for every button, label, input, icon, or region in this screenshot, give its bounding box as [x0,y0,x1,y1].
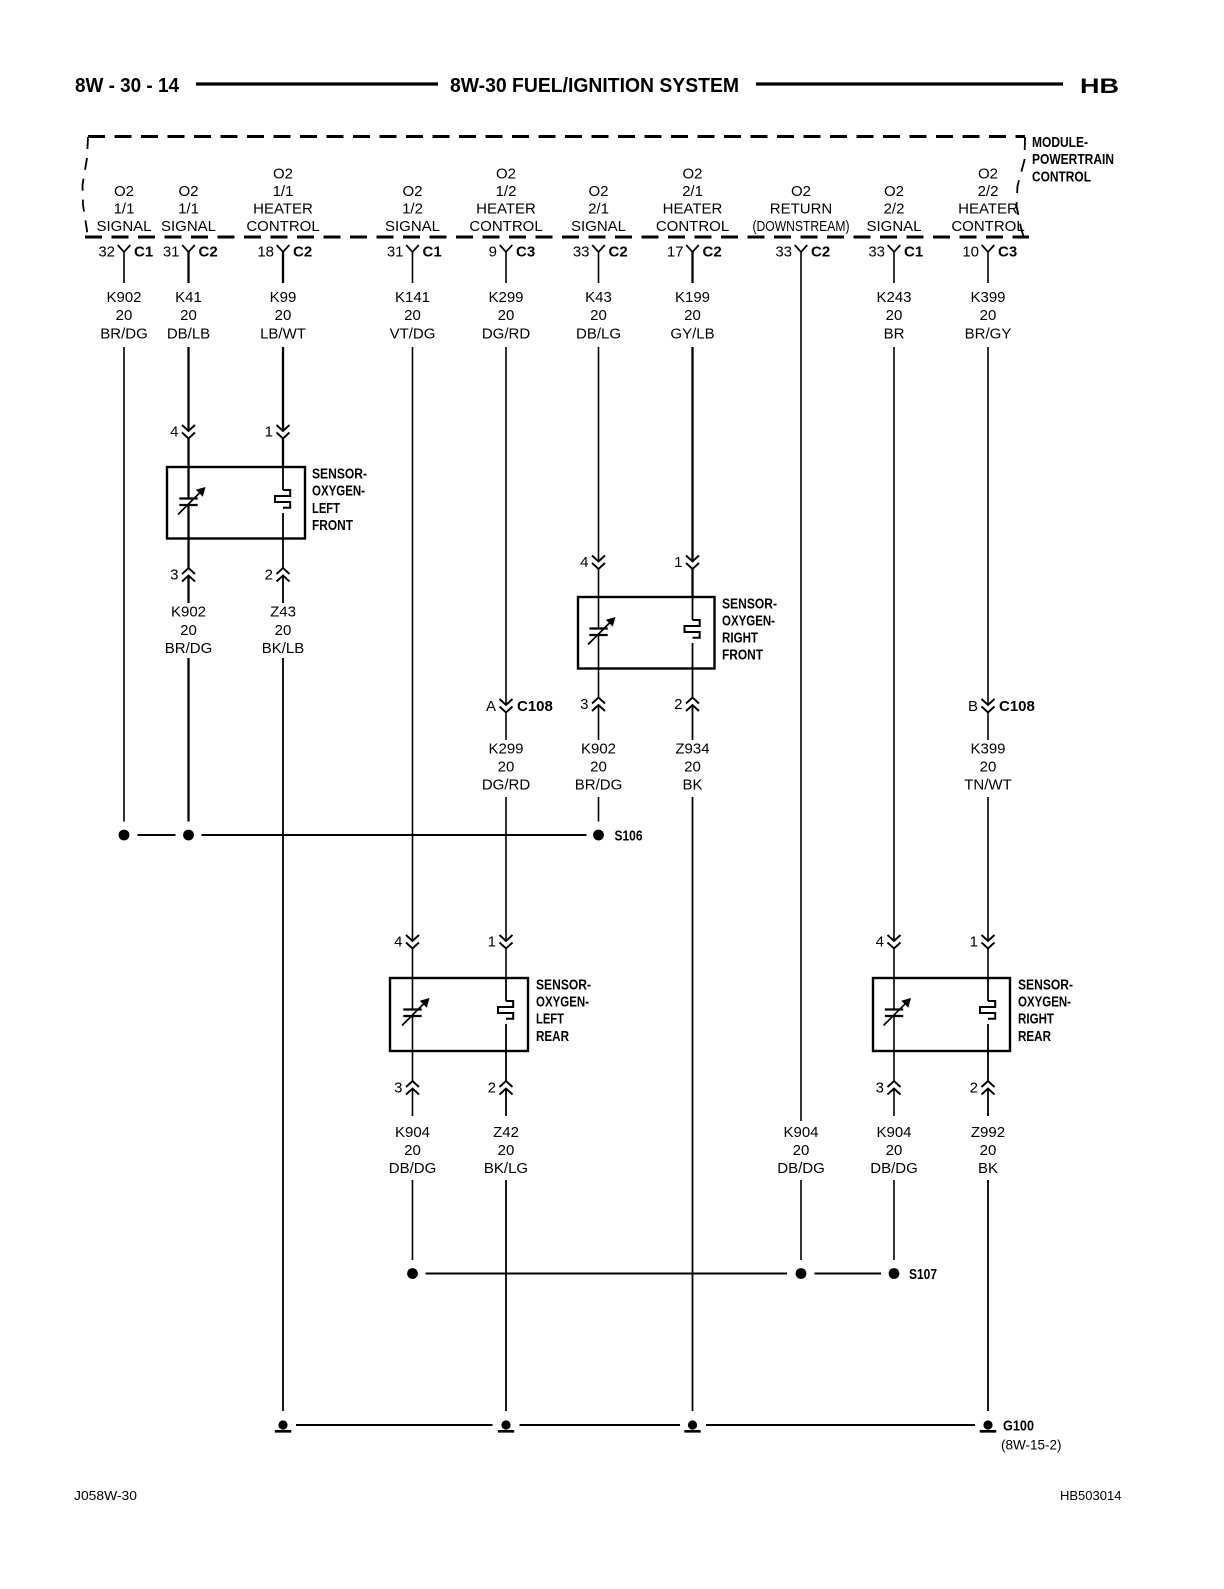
svg-text:10: 10 [962,244,979,261]
svg-text:8W - 30 - 14: 8W - 30 - 14 [75,75,180,97]
wire out of box to pin 3 (col 6) [598,669,600,698]
svg-text:VT/DG: VT/DG [390,326,436,343]
svg-text:C2: C2 [199,244,218,261]
inline connector pin 1 (left rear sensor) [488,934,513,951]
wire K299 from PCM down to C108 pin A (col 5) [505,347,507,705]
svg-text:20: 20 [404,1142,421,1159]
component label SENSOR--OXYGEN--LEFT-FRONT [312,466,367,534]
ground symbol at G100 for wire Z934 [684,1420,700,1431]
svg-text:K41: K41 [175,289,202,306]
svg-text:RIGHT: RIGHT [722,630,758,647]
svg-text:DG/RD: DG/RD [482,326,531,343]
svg-text:K902: K902 [581,741,616,758]
svg-text:OXYGEN-: OXYGEN- [1018,994,1071,1011]
svg-text:DB/LG: DB/LG [576,326,621,343]
inline connector pin 1 (right front sensor) [674,554,699,571]
PCM pin 18 connector C2 (column 3) [257,244,312,284]
wire sensor element top lead (col 9) [893,978,895,1010]
svg-text:HB: HB [1080,75,1119,98]
wire K99 down to sensor connector pin 1 (col 3) [282,347,284,431]
svg-text:BK/LB: BK/LB [262,640,305,657]
svg-text:20: 20 [498,759,515,776]
svg-text:3: 3 [580,696,588,713]
wire Z42 ground wire down to G100 crossing S107 (col 5) [505,1180,507,1411]
svg-text:2/1: 2/1 [682,183,703,200]
svg-text:2: 2 [488,1080,496,1097]
header rule right [756,82,1063,85]
ground symbol at G100 for wire Z992 [980,1420,996,1431]
svg-text:K43: K43 [585,289,612,306]
svg-text:2/2: 2/2 [884,201,905,218]
wire K199 down to sensor connector pin 1 (col 7) [691,347,693,562]
wire to label Z992 (col 10) [987,1089,989,1117]
svg-text:3: 3 [170,567,178,584]
sensing element (variable cell) in LEFT FRONT sensor [178,487,206,515]
wire out of box to pin 2 (col 7) [692,669,694,698]
svg-text:S107: S107 [909,1266,937,1283]
page header HB [1080,75,1119,98]
node label: O2 1/1 HEATER CONTROL (column 3) [246,166,319,236]
inline connector pin 2 (left rear sensor) [488,1080,513,1097]
svg-text:DB/DG: DB/DG [389,1160,437,1177]
svg-text:20: 20 [116,307,133,324]
sensing element (variable cell) in RIGHT FRONT sensor [588,617,616,645]
wire heater bottom lead (col 10) [987,1024,989,1051]
svg-text:O2: O2 [588,183,608,200]
wire to label Z43 (col 3) [282,576,284,604]
wire label K902 20 BR/DG (column 1 top) [100,289,148,343]
wire label Z42 20 BK/LG (below left rear sensor) [484,1124,528,1177]
svg-text:CONTROL: CONTROL [951,218,1024,235]
svg-text:RETURN: RETURN [770,201,833,218]
svg-text:SIGNAL: SIGNAL [571,218,626,235]
svg-text:OXYGEN-: OXYGEN- [312,483,365,500]
svg-text:K902: K902 [106,289,141,306]
sensing element (variable cell) in LEFT REAR sensor [402,998,430,1026]
svg-text:DB/DG: DB/DG [777,1160,825,1177]
svg-text:O2: O2 [402,183,422,200]
svg-text:1/2: 1/2 [402,201,423,218]
svg-text:REAR: REAR [1018,1028,1051,1045]
svg-text:FRONT: FRONT [722,647,763,664]
svg-text:33: 33 [573,244,590,261]
wire sensor element top lead (col 4) [412,978,414,1010]
wire K43 down to sensor connector pin 4 (col 6) [598,347,600,562]
svg-text:2: 2 [265,567,273,584]
PCM pin 10 connector C3 (column 10) [962,244,1017,284]
svg-text:RIGHT: RIGHT [1018,1011,1054,1028]
wire label K399 20 TN/WT (below C108 B) [964,741,1011,794]
wire into left front sensor box (col 2) [187,439,189,468]
wire sensor element bottom lead (col 9) [893,1016,895,1051]
inline connector pin 4 (left rear sensor) [394,934,419,951]
svg-text:CONTROL: CONTROL [656,218,729,235]
svg-text:1/1: 1/1 [114,201,135,218]
splice S106 bus line segments [138,834,587,836]
wire out of box to pin 3 (col 4) [412,1051,414,1081]
heater element in RIGHT REAR sensor [980,1001,995,1019]
wire K399 from PCM down to C108 pin B (col 10) [987,347,989,705]
node label: O2 1/1 SIGNAL (column 2) [161,183,216,235]
svg-text:K904: K904 [395,1124,430,1141]
wire into right rear sensor box (col 10) [987,949,989,979]
wire into left front sensor box (col 3) [282,439,284,468]
module dashed box right edge [1017,137,1026,238]
svg-text:2/1: 2/1 [588,201,609,218]
svg-text:J058W-30: J058W-30 [74,1488,137,1503]
svg-text:20: 20 [180,307,197,324]
inline connector pin 1 (right rear sensor) [970,934,995,951]
svg-text:C2: C2 [293,244,312,261]
inline connector pin 2 (right front sensor) [674,696,699,713]
svg-text:32: 32 [98,244,115,261]
svg-text:SIGNAL: SIGNAL [866,218,921,235]
wire K904 down to splice S107 (col 4) [412,1180,414,1260]
node label: O2 2/2 HEATER CONTROL (column 10) [951,166,1024,236]
svg-text:4: 4 [580,554,588,571]
svg-text:C2: C2 [609,244,628,261]
footer document number left [74,1488,137,1503]
oxygen sensor box: SENSOR- OXYGEN- LEFT FRONT [167,467,305,539]
svg-text:O2: O2 [884,183,904,200]
svg-text:20: 20 [180,622,197,639]
wire into left rear sensor box (col 5) [505,949,507,979]
svg-text:31: 31 [163,244,180,261]
svg-text:20: 20 [275,622,292,639]
splice S106 junction dot and label [593,828,642,845]
wire into right front sensor box (col 6) [598,569,600,597]
inline connector pin 2 (right rear sensor) [970,1080,995,1097]
svg-text:BR/DG: BR/DG [100,326,148,343]
heater element in RIGHT FRONT sensor [685,620,700,638]
wire out of box to pin 3 (col 2) [187,539,189,568]
svg-text:Z934: Z934 [675,741,709,758]
svg-text:BR: BR [884,326,905,343]
node label: O2 1/1 SIGNAL (column 1) [96,183,151,235]
ground symbol at G100 for wire Z42 [498,1420,514,1431]
svg-text:BK/LG: BK/LG [484,1160,528,1177]
inline connector pin 3 (left front sensor) [170,567,195,584]
oxygen sensor box: SENSOR- OXYGEN- RIGHT REAR [873,978,1010,1051]
svg-text:K141: K141 [395,289,430,306]
svg-text:K399: K399 [970,741,1005,758]
wire heater bottom lead (col 3) [282,513,284,539]
svg-text:20: 20 [498,1142,515,1159]
inline connector pin 3 (left rear sensor) [394,1080,419,1097]
node label: O2 2/1 HEATER CONTROL (column 7) [656,166,729,236]
svg-text:C2: C2 [703,244,722,261]
svg-text:BR/GY: BR/GY [965,326,1012,343]
svg-text:2: 2 [674,696,682,713]
wire heater top lead (col 10) [987,978,989,1001]
wire label K199 20 GY/LB (column 7 top) [670,289,714,343]
svg-text:2/2: 2/2 [978,183,999,200]
node label: O2 2/2 SIGNAL (column 9) [866,183,921,235]
svg-text:O2: O2 [114,183,134,200]
svg-text:S106: S106 [615,828,643,845]
component label SENSOR--OXYGEN--LEFT-REAR [536,977,591,1045]
svg-text:18: 18 [257,244,274,261]
svg-text:20: 20 [590,307,607,324]
PCM pin 31 connector C2 (column 2) [163,244,218,284]
svg-text:OXYGEN-: OXYGEN- [536,994,589,1011]
svg-text:C108: C108 [517,698,553,715]
svg-text:FRONT: FRONT [312,517,353,534]
svg-text:20: 20 [404,307,421,324]
wire label K904 20 DB/DG (below right rear sensor) [870,1124,918,1177]
page header title center [450,75,739,97]
svg-text:20: 20 [275,307,292,324]
wire to label Z934 (col 7) [692,705,694,740]
wire sensor element bottom lead (col 4) [412,1016,414,1051]
svg-text:1: 1 [488,934,496,951]
svg-text:GY/LB: GY/LB [670,326,714,343]
wire below C108 (col 10) [987,713,989,741]
wire into right rear sensor box (col 9) [893,949,895,979]
PCM pin 33 connector C1 (column 9) [868,244,923,284]
svg-text:BR/DG: BR/DG [165,640,213,657]
svg-text:3: 3 [394,1080,402,1097]
svg-text:C3: C3 [516,244,535,261]
wire to label K902 (col 6) [598,705,600,740]
svg-text:HB503014: HB503014 [1060,1488,1121,1503]
svg-text:C108: C108 [999,698,1035,715]
inline connector pin 2 (left front sensor) [265,567,290,584]
svg-text:A: A [486,698,496,715]
svg-text:(8W-15-2): (8W-15-2) [1001,1438,1062,1453]
svg-text:20: 20 [793,1142,810,1159]
wire K141 from PCM down to left rear sensor pin 4, crossing S106 (col 4) [412,347,414,941]
ground bus G100 line segments [296,1424,975,1426]
svg-text:33: 33 [868,244,885,261]
svg-text:3: 3 [876,1080,884,1097]
ground G100 label [1001,1418,1062,1453]
PCM pin 9 connector C3 (column 5) [489,244,536,284]
wire label K904 20 DB/DG (below left rear sensor) [389,1124,437,1177]
wire K904 O2 return from PCM straight down (col 8) [800,283,802,1121]
wire into left rear sensor box (col 4) [412,949,414,979]
wire K904 down to splice S107 (col 8) [800,1180,802,1260]
svg-text:OXYGEN-: OXYGEN- [722,613,775,630]
svg-text:G100: G100 [1003,1418,1034,1435]
junction dot col2 at S106 [183,830,194,841]
page header title left [75,75,180,97]
svg-text:20: 20 [590,759,607,776]
svg-text:1: 1 [970,934,978,951]
svg-text:20: 20 [684,759,701,776]
node label: O2 1/2 SIGNAL (column 4) [385,183,440,235]
wire label K902 20 BR/DG (below left front sensor) [165,604,213,658]
svg-text:20: 20 [980,307,997,324]
wire K243 from PCM down to right rear sensor pin 4 (col 9) [893,347,895,941]
wire K399 down to right rear sensor pin 1 (col 10) [987,797,989,941]
wire heater top lead (col 7) [692,597,694,620]
svg-text:SIGNAL: SIGNAL [96,218,151,235]
svg-text:CONTROL: CONTROL [246,218,319,235]
svg-text:20: 20 [980,759,997,776]
wire label K243 20 BR (column 9 top) [876,289,911,343]
svg-text:33: 33 [775,244,792,261]
sensing element (variable cell) in RIGHT REAR sensor [884,998,912,1026]
svg-text:C1: C1 [904,244,923,261]
wire K902 from PCM down to splice S106 (col 1) [123,347,125,822]
svg-text:K902: K902 [171,604,206,621]
svg-text:4: 4 [394,934,402,951]
svg-text:HEATER: HEATER [253,201,313,218]
module label MODULE-POWERTRAIN CONTROL [1032,134,1114,185]
wire Z43 ground wire down to G100 (col 3) [282,658,284,1411]
wire K904 down to splice S107 (col 9) [893,1180,895,1260]
svg-text:POWERTRAIN: POWERTRAIN [1032,151,1114,168]
svg-text:BR/DG: BR/DG [575,777,623,794]
svg-text:K399: K399 [970,289,1005,306]
svg-text:SENSOR-: SENSOR- [1018,977,1073,994]
svg-text:Z42: Z42 [493,1124,519,1141]
PCM pin 17 connector C2 (column 7) [667,244,722,284]
wire sensor element bottom lead (col 6) [598,635,600,669]
svg-text:17: 17 [667,244,684,261]
svg-text:SIGNAL: SIGNAL [385,218,440,235]
splice S107 bus line segments [426,1273,882,1275]
wire Z934 ground wire down to G100 crossing S107 (col 7) [692,797,694,1411]
component label SENSOR--OXYGEN--RIGHT-REAR [1018,977,1073,1045]
inline connector pin 4 (right rear sensor) [876,934,901,951]
wire out of box to pin 2 (col 5) [505,1051,507,1081]
wire below C108 (col 5) [505,713,507,741]
inline connector pin 4 (right front sensor) [580,554,605,571]
wire label K99 20 LB/WT (column 3 top) [260,289,306,343]
svg-text:9: 9 [489,244,497,261]
svg-text:K99: K99 [270,289,297,306]
svg-text:K904: K904 [876,1124,911,1141]
wire label Z992 20 BK (below right rear sensor) [971,1124,1005,1177]
svg-text:BK: BK [682,777,702,794]
svg-text:REAR: REAR [536,1028,569,1045]
wire to label Z42 (col 5) [505,1089,507,1117]
oxygen sensor box: SENSOR- OXYGEN- RIGHT FRONT [578,597,715,669]
wire heater bottom lead (col 5) [505,1024,507,1051]
inline connector pin 4 (left front sensor) [170,424,195,441]
heater element in LEFT FRONT sensor [275,490,290,508]
wire to label K902 (col 2) [187,576,189,604]
wire sensor element top lead (col 2) [187,467,189,499]
wire label Z934 20 BK (below right front sensor) [675,741,709,794]
connector C108 pin A [486,698,553,715]
svg-text:4: 4 [876,934,884,951]
svg-text:SIGNAL: SIGNAL [161,218,216,235]
svg-text:2: 2 [970,1080,978,1097]
svg-text:C2: C2 [811,244,830,261]
component label SENSOR--OXYGEN--RIGHT-FRONT [722,595,777,663]
PCM pin 33 connector C2 (column 6) [573,244,628,284]
svg-text:K299: K299 [488,289,523,306]
svg-text:TN/WT: TN/WT [964,777,1011,794]
wire label K141 20 VT/DG (column 4 top) [390,289,436,343]
wire label Z43 20 BK/LB (below left front sensor) [262,604,305,658]
node label: O2 2/1 SIGNAL (column 6) [571,183,626,235]
svg-text:Z43: Z43 [270,604,296,621]
svg-text:1: 1 [674,554,682,571]
wire K902 down to splice S106 (col 6) [598,797,600,822]
inline connector pin 3 (right front sensor) [580,696,605,713]
splice S107 junction dot and label [889,1266,937,1283]
svg-text:HEATER: HEATER [958,201,1018,218]
connector C108 pin B [968,698,1035,715]
svg-text:C1: C1 [423,244,442,261]
wire heater bottom lead (col 7) [692,643,694,669]
svg-text:20: 20 [498,307,515,324]
footer figure number right [1060,1488,1121,1503]
svg-text:4: 4 [170,424,178,441]
svg-text:O2: O2 [791,183,811,200]
junction dot col4 at S107 [407,1268,418,1279]
svg-text:BK: BK [978,1160,998,1177]
inline connector pin 1 (left front sensor) [265,424,290,441]
svg-text:20: 20 [980,1142,997,1159]
wire heater top lead (col 3) [282,467,284,490]
wire label K902 20 BR/DG (below right front sensor) [575,741,623,794]
svg-text:K904: K904 [783,1124,818,1141]
wire label K299 20 DG/RD (column 5 top) [482,289,531,343]
PCM pin 31 connector C1 (column 4) [387,244,442,284]
wire into right front sensor box (col 7) [691,569,693,597]
svg-text:SENSOR-: SENSOR- [722,595,777,612]
node label: O2 1/2 HEATER CONTROL (column 5) [469,166,542,236]
wire label K43 20 DB/LG (column 6 top) [576,289,621,343]
oxygen sensor box: SENSOR- OXYGEN- LEFT REAR [390,978,528,1051]
wire label K904 20 DB/DG (O2 return downstream) [777,1124,825,1177]
svg-text:DB/LB: DB/LB [167,326,210,343]
svg-text:SENSOR-: SENSOR- [536,977,591,994]
svg-text:CONTROL: CONTROL [1032,168,1091,185]
PCM pin 32 connector C1 (column 1) [98,244,153,284]
svg-text:MODULE-: MODULE- [1032,134,1088,151]
module dashed box left edge [83,137,89,237]
svg-text:20: 20 [684,307,701,324]
wire label K41 20 DB/LB (column 2 top) [167,289,210,343]
svg-text:B: B [968,698,978,715]
svg-text:CONTROL: CONTROL [469,218,542,235]
svg-text:K199: K199 [675,289,710,306]
svg-text:1/1: 1/1 [178,201,199,218]
svg-text:O2: O2 [178,183,198,200]
svg-text:DG/RD: DG/RD [482,777,531,794]
svg-text:K243: K243 [876,289,911,306]
wire heater top lead (col 5) [505,978,507,1001]
module-powertrain control dashed box top edge [88,135,1025,138]
svg-text:(DOWNSTREAM): (DOWNSTREAM) [753,218,850,235]
wire sensor element bottom lead (col 2) [187,505,189,539]
module dashed box bottom edge [85,236,1029,239]
svg-text:O2: O2 [682,166,702,183]
svg-text:O2: O2 [978,166,998,183]
header rule left [196,82,438,85]
ground symbol at G100 for wire Z43 [275,1420,291,1431]
wire label K399 20 BR/GY (column 10 top) [965,289,1012,343]
node label: O2 RETURN (DOWNSTREAM) (column 8) [753,183,850,235]
wire out of box to pin 2 (col 10) [987,1051,989,1081]
PCM pin 33 connector C2 (column 8) [775,244,830,284]
wire K41 down to sensor connector pin 4 (col 2) [187,347,189,431]
svg-text:DB/DG: DB/DG [870,1160,918,1177]
svg-text:1/1: 1/1 [273,183,294,200]
wire K902 down to splice S106 (col 2) [187,658,189,822]
svg-text:C1: C1 [134,244,153,261]
svg-text:K299: K299 [488,741,523,758]
svg-text:LB/WT: LB/WT [260,326,306,343]
svg-text:20: 20 [886,1142,903,1159]
svg-text:31: 31 [387,244,404,261]
